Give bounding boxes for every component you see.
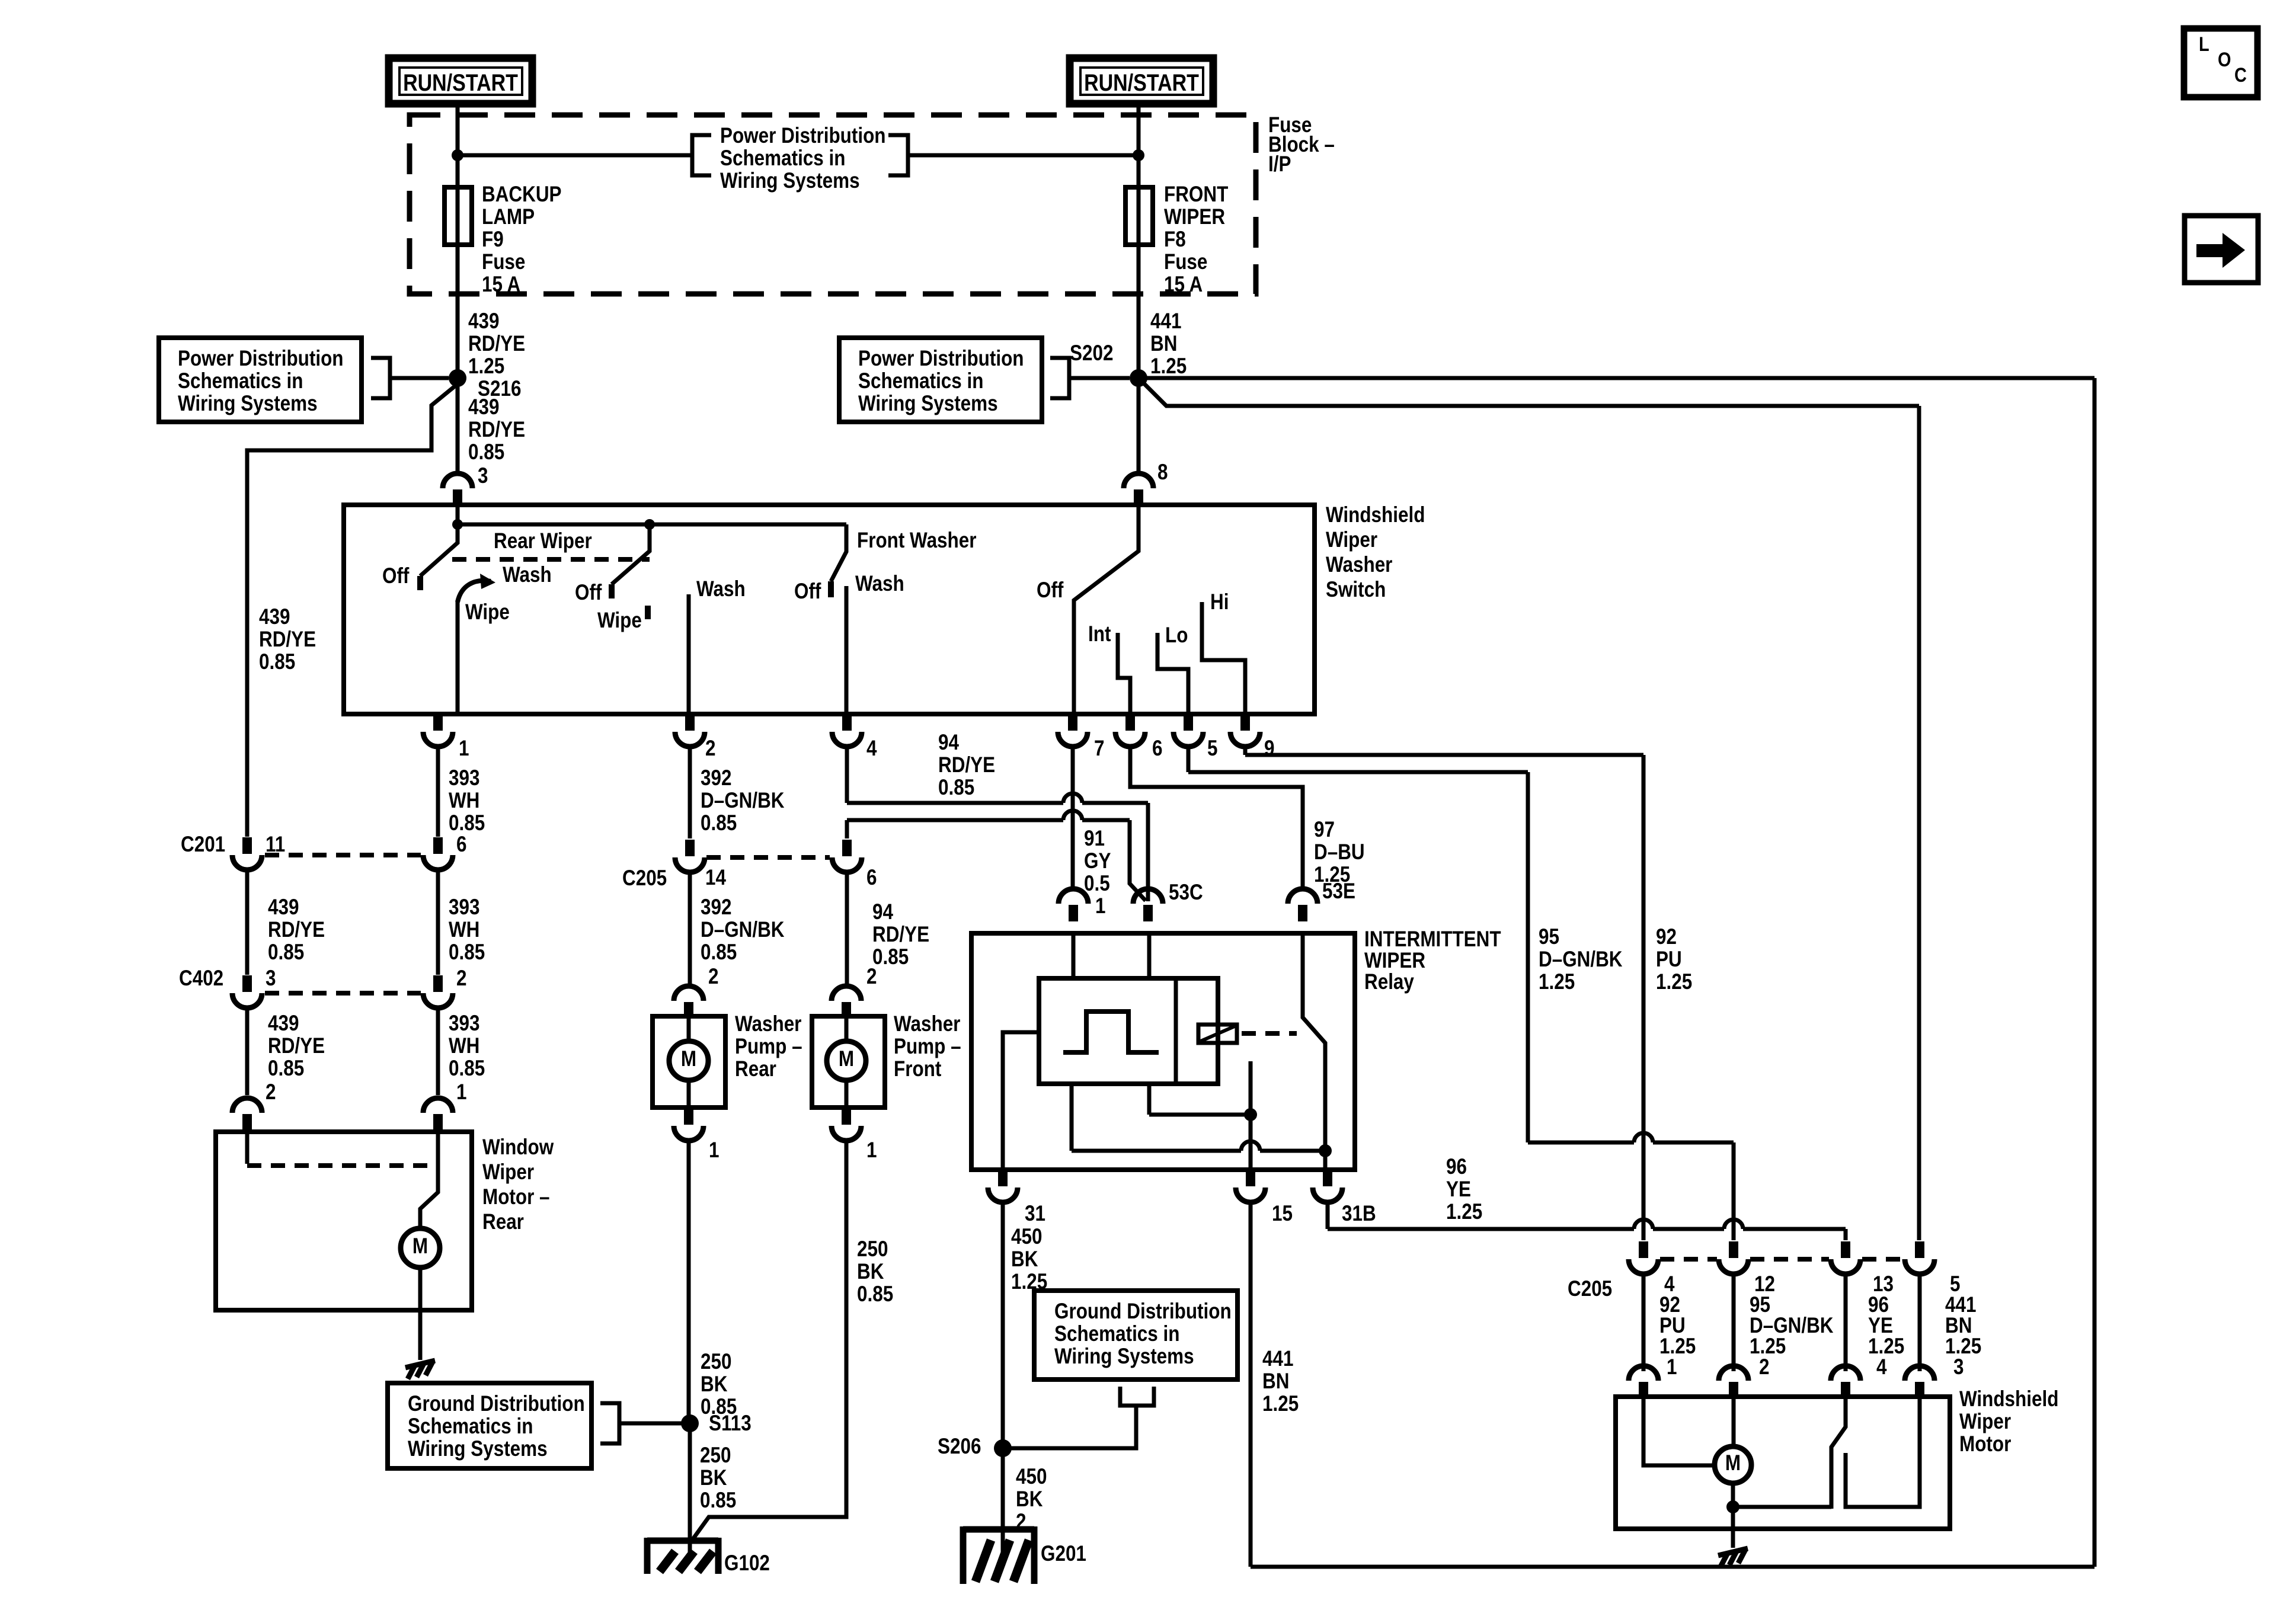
svg-text:Window: Window (482, 1135, 554, 1160)
svg-text:D–BU: D–BU (1314, 840, 1365, 865)
svg-text:Schematics in: Schematics in (720, 146, 845, 171)
wire 94 RD/YE 0.85 C205-6 to pump front (845, 872, 849, 984)
svg-text:4: 4 (1876, 1355, 1886, 1379)
connector relay pin 31 (998, 1170, 1008, 1186)
svg-text:5: 5 (1207, 737, 1217, 761)
svg-text:BK: BK (1016, 1487, 1043, 1512)
svg-text:LAMP: LAMP (482, 205, 535, 229)
svg-text:Fuse: Fuse (1164, 250, 1207, 274)
wire 393 WH 0.85 C402 to motor (436, 1007, 440, 1095)
svg-text:RUN/START: RUN/START (1084, 69, 1199, 95)
park switch open contact to pin 3 (1846, 1397, 1920, 1507)
wire 95 D-GN/BK 1.25 pin5 to C205-12 (1187, 746, 1191, 772)
svg-text:WIPER: WIPER (1364, 949, 1425, 973)
svg-text:Switch: Switch (1326, 578, 1386, 602)
motor internal pin1 to M (1643, 1397, 1715, 1465)
svg-text:Schematics in: Schematics in (1054, 1322, 1179, 1346)
svg-text:C402: C402 (179, 966, 223, 991)
svg-text:1.25: 1.25 (1656, 970, 1692, 994)
switch internal bus wire (456, 505, 460, 524)
LOC icon box (2184, 28, 2257, 97)
svg-text:Fuse: Fuse (482, 250, 525, 274)
svg-text:WH: WH (449, 1034, 479, 1058)
motor M to ground node (1731, 1483, 1735, 1507)
wire RUN/START right to fuse F8 (1137, 104, 1141, 187)
connector washer pump rear pin 1 (684, 1108, 693, 1125)
svg-text:1.25: 1.25 (1659, 1334, 1696, 1359)
wire 450 BK 1.25 relay 31 to S206 (1001, 1202, 1005, 1448)
svg-text:91: 91 (1084, 827, 1105, 851)
relay pin7-input internal to timer (1072, 933, 1076, 978)
node motor common (1726, 1500, 1739, 1513)
connector switch pin 2 (685, 714, 695, 731)
bracket to S216 (371, 358, 449, 398)
svg-text:RD/YE: RD/YE (468, 418, 525, 442)
connector C201 pin 6 (right) (433, 837, 443, 854)
connector C205 pin 12 (1729, 1241, 1738, 1258)
svg-text:Wiring Systems: Wiring Systems (178, 392, 318, 416)
svg-text:3: 3 (478, 464, 488, 488)
svg-text:M: M (1725, 1451, 1741, 1475)
svg-text:M: M (839, 1047, 854, 1071)
svg-text:439: 439 (268, 1012, 299, 1036)
wire 439 RD/YE 0.85 S216 to switch pin 3 (456, 378, 460, 473)
splice S206 (994, 1439, 1012, 1457)
arrow icon box (2185, 216, 2258, 283)
svg-text:Power Distribution: Power Distribution (178, 347, 343, 371)
svg-text:S202: S202 (1070, 341, 1113, 366)
svg-text:GY: GY (1084, 849, 1111, 873)
svg-text:Washer: Washer (1326, 553, 1392, 577)
svg-text:F9: F9 (482, 228, 504, 252)
svg-text:Washer: Washer (894, 1012, 960, 1036)
connector wiper motor pin 2 (1719, 1366, 1748, 1381)
svg-text:15: 15 (1272, 1202, 1293, 1226)
connector 53E (1288, 889, 1318, 904)
svg-text:Hi: Hi (1210, 590, 1229, 614)
svg-text:450: 450 (1011, 1225, 1042, 1249)
connector switch pin 7 (1068, 714, 1077, 731)
wire 439 RD/YE 0.85 S216 branch to C201 (left drop) (247, 384, 458, 837)
rear washer switch arm (Off) (612, 524, 650, 584)
motor M washer pump front (827, 1041, 866, 1080)
Hi contact to pin 9 (1202, 602, 1245, 714)
connector pin 3 at switch (443, 473, 472, 488)
svg-text:441: 441 (1262, 1347, 1293, 1371)
svg-text:Lo: Lo (1165, 623, 1188, 648)
Power Distribution note box (right) (839, 338, 1042, 422)
svg-text:Wipe: Wipe (465, 600, 510, 625)
bracket to S113 (600, 1403, 682, 1443)
svg-text:0.85: 0.85 (468, 440, 504, 465)
wire 250 BK 0.85 pump front to G102 (693, 1140, 846, 1538)
wire 439 RD/YE 1.25 from F9 to S216 (456, 245, 460, 378)
svg-text:1: 1 (866, 1138, 877, 1163)
svg-text:Rear: Rear (735, 1057, 776, 1081)
rear motor ground wire (418, 1267, 423, 1360)
svg-text:C205: C205 (1568, 1277, 1612, 1301)
splice S216 (449, 369, 466, 387)
ground (rear motor) (405, 1361, 435, 1379)
wire 94 RD/YE return to C205-6 (hops pin7 wire) (847, 818, 1063, 822)
svg-text:2: 2 (708, 965, 718, 989)
connector C205 pin 13 (1841, 1241, 1850, 1258)
connector C205 pin 5 (1915, 1241, 1924, 1258)
svg-text:2: 2 (705, 737, 715, 761)
connector washer pump front pin 2 (832, 986, 861, 1001)
svg-text:I/P: I/P (1268, 152, 1291, 177)
svg-text:96: 96 (1446, 1155, 1467, 1179)
svg-text:439: 439 (468, 395, 499, 420)
motor common to park switch arm (1733, 1505, 1831, 1509)
rear wiper gang dashed link (452, 557, 650, 562)
connector C402 pin 2 (right) (433, 975, 443, 992)
svg-text:31B: 31B (1342, 1202, 1376, 1226)
front washer pivot and arm (831, 524, 846, 581)
svg-text:Pump –: Pump – (735, 1035, 802, 1059)
connector rear motor pin 2 (232, 1098, 262, 1113)
wire 439 RD/YE 0.85 C201 to C402 (245, 869, 250, 975)
motor ground wire (1731, 1507, 1735, 1548)
svg-text:250: 250 (857, 1237, 888, 1262)
svg-text:1: 1 (709, 1138, 719, 1163)
wire 393 WH 0.85 pin1 to C201-6 (436, 746, 440, 837)
svg-text:Ground Distribution: Ground Distribution (408, 1392, 585, 1416)
svg-text:RD/YE: RD/YE (938, 753, 995, 777)
svg-text:1.25: 1.25 (1262, 1392, 1299, 1416)
wire crossover inside fuse block (458, 153, 692, 158)
svg-text:450: 450 (1016, 1465, 1047, 1489)
rear motor internal dashed link (245, 1132, 250, 1164)
Int contact to pin 6 (1118, 633, 1130, 714)
relay internal: timer bottom to 31B (1070, 1084, 1074, 1151)
svg-text:Wiper: Wiper (1959, 1410, 2011, 1434)
connector switch pin 4 (842, 714, 852, 731)
node relay contact (1244, 1108, 1257, 1121)
svg-text:250: 250 (701, 1350, 731, 1374)
arrow glyph (2196, 244, 2223, 257)
svg-text:1: 1 (1095, 894, 1105, 918)
svg-text:BK: BK (701, 1372, 728, 1397)
svg-text:Front: Front (894, 1057, 942, 1081)
wire 96 YE 1.25 from 31B to C205-13 (1326, 1202, 1330, 1229)
svg-text:1: 1 (456, 1080, 466, 1105)
relay timer box (1039, 978, 1218, 1084)
svg-text:6: 6 (1152, 737, 1162, 761)
connector C205 pin 6 (842, 840, 852, 856)
svg-text:PU: PU (1656, 948, 1682, 972)
svg-text:BK: BK (700, 1466, 727, 1490)
svg-text:2: 2 (1759, 1355, 1769, 1379)
Lo contact to pin 5 (1157, 633, 1188, 714)
svg-text:WIPER: WIPER (1164, 205, 1225, 229)
motor M rear (401, 1228, 440, 1267)
wire 392 D-GN/BK 0.85 pin2 to C205-14 (688, 746, 692, 838)
wire 392 D-GN/BK 0.85 C205 to pump (688, 872, 692, 984)
svg-text:441: 441 (1150, 309, 1181, 334)
Washer Pump Rear box (653, 1016, 725, 1108)
park switch arm from pin 4 (1831, 1397, 1846, 1509)
rear wiper Wash arc arrow (458, 581, 491, 602)
svg-text:Off: Off (794, 580, 821, 604)
node 31B junction (1319, 1144, 1332, 1157)
svg-text:WH: WH (449, 918, 479, 942)
svg-text:0.85: 0.85 (701, 811, 737, 836)
svg-text:D–GN/BK: D–GN/BK (701, 918, 785, 942)
connector switch pin 5 (1184, 714, 1193, 731)
svg-text:3: 3 (1953, 1355, 1964, 1379)
wire 91 GY 0.5 drop to 53C (1130, 820, 1146, 901)
relay switch arm from 53E (1303, 933, 1325, 1148)
svg-text:BK: BK (857, 1260, 884, 1284)
svg-text:53E: 53E (1322, 879, 1355, 904)
svg-text:BN: BN (1262, 1369, 1289, 1394)
svg-text:WH: WH (449, 789, 479, 813)
svg-text:RUN/START: RUN/START (403, 69, 518, 95)
svg-text:Wiring Systems: Wiring Systems (720, 169, 860, 193)
wire 97 D-BU 1.25 pin6 to 53E (1130, 746, 1303, 889)
wire 439 RD/YE 0.85 C402 to motor (245, 1007, 250, 1095)
fuse block I/P dashed enclosure (410, 115, 1256, 294)
connector C205 pin 14 (685, 840, 695, 856)
svg-text:1: 1 (459, 737, 469, 761)
connector 53C (1133, 889, 1163, 904)
svg-text:1.25: 1.25 (468, 354, 504, 379)
connector wiper motor pin 4 (1831, 1366, 1860, 1381)
junction dot left feed (452, 149, 463, 161)
svg-text:1.25: 1.25 (1539, 970, 1575, 994)
relay internal: pin 31 to timer left (1003, 1032, 1039, 1170)
svg-text:Schematics in: Schematics in (858, 369, 983, 393)
svg-text:S113: S113 (709, 1411, 752, 1436)
connector C201 pin 11 (left) (242, 837, 252, 854)
svg-text:L: L (2199, 33, 2209, 56)
svg-text:Wash: Wash (855, 572, 904, 596)
svg-text:Power Distribution: Power Distribution (858, 347, 1024, 371)
svg-text:C205: C205 (622, 866, 667, 891)
svg-text:Front Washer: Front Washer (857, 529, 976, 553)
svg-text:RD/YE: RD/YE (872, 923, 929, 947)
Window Wiper Motor Rear box (216, 1132, 472, 1310)
svg-text:Wash: Wash (696, 577, 746, 601)
fuse F9 BACKUP LAMP 15A (445, 187, 472, 245)
Ground Distribution note box (left) (388, 1383, 591, 1468)
svg-text:BK: BK (1011, 1247, 1038, 1272)
bracket right of Power Distribution note (888, 135, 908, 175)
svg-text:Windshield: Windshield (1959, 1387, 2058, 1411)
svg-text:2: 2 (456, 966, 466, 991)
svg-text:Schematics in: Schematics in (178, 369, 303, 393)
svg-text:8: 8 (1157, 460, 1168, 485)
connector switch pin 9 (1240, 714, 1250, 731)
svg-text:C201: C201 (181, 833, 225, 857)
svg-text:Pump –: Pump – (894, 1035, 961, 1059)
svg-text:392: 392 (701, 895, 731, 920)
svg-text:G102: G102 (724, 1551, 770, 1576)
connector pin 8 at switch (1124, 473, 1153, 488)
svg-text:7: 7 (1094, 737, 1104, 761)
connector switch pin 6 (1125, 714, 1135, 731)
ground (wiper motor) (1718, 1548, 1748, 1567)
svg-text:Wiring Systems: Wiring Systems (858, 392, 998, 416)
C201 dashed link (265, 853, 421, 857)
svg-text:0.85: 0.85 (701, 940, 737, 965)
connector RUN/START (right feed) (1070, 58, 1213, 104)
svg-text:0.5: 0.5 (1084, 872, 1110, 896)
svg-text:Off: Off (1037, 578, 1064, 603)
svg-text:0.85: 0.85 (857, 1282, 893, 1307)
svg-text:Schematics in: Schematics in (408, 1414, 533, 1439)
svg-text:92: 92 (1656, 925, 1677, 949)
connector rear motor pin 1 (423, 1098, 453, 1113)
svg-text:392: 392 (701, 766, 731, 790)
bracket below box to S206 (1120, 1387, 1154, 1406)
svg-text:Wiper: Wiper (1326, 528, 1377, 552)
svg-text:95: 95 (1539, 925, 1559, 949)
svg-text:2: 2 (266, 1080, 276, 1105)
relay internal: timer out to contact (1147, 1084, 1152, 1115)
connector switch pin 1 (433, 714, 443, 731)
timer pulse symbol (1063, 1012, 1159, 1052)
svg-text:439: 439 (468, 309, 499, 334)
wire RUN/START left to fuse F9 (456, 104, 460, 187)
connector relay pin 31B (1323, 1170, 1332, 1186)
junction dot right feed (1133, 149, 1144, 161)
connector RUN/START (left feed) (389, 58, 532, 104)
svg-text:439: 439 (268, 895, 299, 920)
svg-text:RD/YE: RD/YE (468, 332, 525, 356)
svg-text:1.25: 1.25 (1446, 1200, 1482, 1224)
svg-text:393: 393 (449, 1012, 479, 1036)
svg-text:Wiper: Wiper (482, 1160, 534, 1185)
svg-text:0.85: 0.85 (872, 945, 909, 969)
svg-text:0.85: 0.85 (700, 1489, 736, 1513)
svg-text:Ground Distribution: Ground Distribution (1054, 1299, 1232, 1324)
rear washer Wash contact to pin 2 (687, 594, 691, 714)
connector C205 pin 4 (1639, 1241, 1648, 1258)
svg-text:53C: 53C (1169, 881, 1203, 905)
svg-text:Wiring Systems: Wiring Systems (408, 1437, 548, 1461)
svg-text:D–GN/BK: D–GN/BK (1539, 948, 1623, 972)
relay 53C internal to timer (1147, 933, 1152, 978)
motor M windshield (1715, 1446, 1751, 1483)
svg-text:D–GN/BK: D–GN/BK (701, 789, 785, 813)
motor internal pin2 to M top (1732, 1397, 1736, 1447)
svg-text:M: M (412, 1234, 428, 1259)
svg-text:M: M (681, 1047, 696, 1071)
svg-text:3: 3 (266, 966, 276, 991)
svg-text:O: O (2218, 48, 2231, 71)
svg-text:G201: G201 (1041, 1542, 1086, 1566)
svg-text:393: 393 (449, 895, 479, 920)
rear motor internal wire to M (420, 1132, 438, 1229)
relay coil (1198, 1025, 1237, 1043)
svg-text:RD/YE: RD/YE (268, 918, 325, 942)
svg-text:94: 94 (938, 731, 959, 755)
relay coil dashed link to arm (1242, 1031, 1297, 1036)
wires C205 to motor caps (1642, 1273, 1646, 1371)
svg-text:393: 393 (449, 766, 479, 790)
wire 250 BK 0.85 S113 to G102 (688, 1423, 692, 1553)
svg-text:FRONT: FRONT (1164, 183, 1228, 207)
ground G201 (963, 1526, 1034, 1584)
C205-14 dashed link toward C205-6 (706, 855, 830, 860)
ground G102 (647, 1538, 718, 1574)
wire 450 BK 2 S206 to G201 (1001, 1448, 1005, 1566)
svg-text:0.85: 0.85 (449, 1057, 485, 1081)
svg-text:C: C (2234, 63, 2247, 87)
node rear wiper pivot (452, 519, 463, 530)
wire 94 RD/YE 0.85 pin4 down (845, 746, 849, 803)
svg-text:4: 4 (866, 737, 877, 761)
svg-text:94: 94 (872, 900, 893, 924)
connector washer pump front pin 1 (842, 1108, 851, 1125)
svg-text:15 A: 15 A (482, 273, 520, 297)
bracket left of Power Distribution note (692, 135, 711, 175)
connector C402 pin 3 (left) (242, 975, 252, 992)
Power Distribution note box (left) (159, 338, 362, 422)
svg-text:0.85: 0.85 (449, 811, 485, 836)
C402 dashed link (265, 991, 421, 996)
svg-text:Wipe: Wipe (597, 609, 642, 633)
svg-text:Rear Wiper: Rear Wiper (494, 529, 592, 553)
wire 441 BN 1.25 S202 to switch pin 8 (1137, 378, 1141, 473)
connector wiper motor pin 3 (1905, 1366, 1934, 1381)
svg-text:S206: S206 (938, 1435, 981, 1459)
svg-text:INTERMITTENT: INTERMITTENT (1364, 927, 1501, 952)
Windshield Wiper Motor box (1616, 1397, 1950, 1529)
svg-text:Washer: Washer (735, 1012, 801, 1036)
splice S113 (681, 1414, 699, 1432)
svg-text:0.85: 0.85 (259, 650, 295, 674)
wire B 441 BN: S202 diagonal, right, down to C205-5 (1143, 382, 1919, 406)
svg-text:Windshield: Windshield (1326, 503, 1425, 527)
svg-text:Off: Off (382, 564, 410, 588)
front washer Wash contact to pin 4 (845, 586, 849, 714)
node rear washer pivot (644, 519, 655, 530)
svg-text:Wash: Wash (503, 563, 552, 587)
svg-text:BN: BN (1150, 332, 1177, 356)
svg-text:2: 2 (866, 965, 877, 989)
rear washer Wipe tick (645, 606, 651, 619)
svg-text:0.85: 0.85 (938, 776, 974, 800)
splice S202 (1130, 369, 1147, 387)
connector wiper motor pin 1 (1629, 1366, 1658, 1381)
connector relay input from pin 7 (1059, 889, 1088, 904)
svg-text:RD/YE: RD/YE (259, 628, 316, 652)
C205 dashed links (1660, 1257, 1717, 1262)
svg-text:1: 1 (1667, 1355, 1677, 1379)
svg-text:Off: Off (575, 581, 602, 605)
main wiper switch arm to Off/pin7 (1074, 505, 1139, 714)
svg-text:0.85: 0.85 (268, 1057, 304, 1081)
svg-text:439: 439 (259, 605, 290, 629)
svg-text:0.85: 0.85 (268, 940, 304, 965)
svg-text:14: 14 (705, 866, 726, 890)
svg-text:RD/YE: RD/YE (268, 1034, 325, 1058)
wire 441 BN 1.25 from F8 to S202 (1137, 245, 1141, 378)
connector relay pin 15 (1246, 1170, 1255, 1186)
svg-text:31: 31 (1025, 1202, 1045, 1226)
wire 393 WH 0.85 C201 to C402 (436, 869, 440, 975)
svg-text:97: 97 (1314, 818, 1335, 842)
svg-text:Rear: Rear (482, 1210, 524, 1234)
wire 92 PU 1.25 pin9 to C205-4 (1243, 746, 1248, 755)
bracket to S202 (1050, 358, 1130, 398)
fuse F8 FRONT WIPER 15A (1125, 187, 1153, 245)
svg-text:Wiring Systems: Wiring Systems (1054, 1345, 1194, 1369)
svg-text:6: 6 (456, 833, 466, 857)
